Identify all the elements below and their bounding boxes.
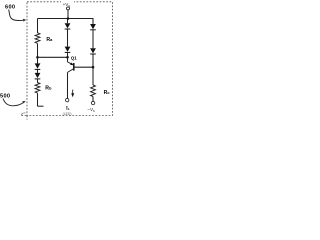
junction dot left node — [36, 56, 39, 59]
wire base node to Rc — [92, 67, 94, 85]
svg-text:500: 500 — [0, 93, 10, 99]
collector lead — [68, 69, 74, 73]
base wire to right column — [74, 66, 93, 68]
stub wire at bottom of left column — [38, 105, 44, 107]
junction dot at +V rail — [67, 17, 70, 20]
stray corner mark bottom-left of dashed box — [22, 113, 26, 115]
middle column: diode D1 — [67, 19, 69, 24]
diode D4 — [35, 73, 41, 78]
wire D4 to Rb — [37, 79, 39, 83]
output terminal circle — [66, 98, 69, 101]
diode D6 — [90, 48, 96, 53]
diode D5 — [90, 24, 96, 29]
wire D6 to base node — [92, 54, 94, 67]
top rail wire — [38, 18, 94, 20]
collector wire down — [67, 72, 69, 98]
emitter lead with arrow — [67, 57, 69, 62]
wire D5 to D6 — [92, 30, 94, 48]
white patch behind +V label breaking top dash — [61, 0, 74, 7]
current direction arrow — [72, 90, 74, 94]
wire terminal to rail — [67, 10, 69, 19]
resistor Rc — [91, 85, 96, 97]
dashed overshoot below bottom-left corner — [26, 116, 28, 120]
dashed overshoot left of bottom-left corner — [21, 115, 27, 117]
svg-text:600: 600 — [5, 4, 15, 10]
wire Rb down — [37, 93, 39, 106]
wire Rc to -Vs terminal — [92, 97, 94, 102]
junction dot emitter node — [66, 56, 69, 59]
resistor Rb — [35, 83, 40, 94]
wire D2 to emitter node — [67, 52, 69, 57]
wire D3 to D4 — [37, 69, 39, 73]
svg-text:(LED): (LED) — [63, 112, 72, 116]
diode D3 — [37, 57, 39, 63]
leader arrow for 500 — [3, 99, 24, 106]
junction dot base node — [92, 66, 95, 69]
+Vs terminal circle — [67, 7, 70, 10]
wire D1 to D2 — [67, 29, 69, 47]
base bar — [73, 63, 75, 71]
right column: rail corner down — [92, 18, 94, 24]
wire left node to emitter node — [38, 56, 68, 58]
-Vs terminal circle — [91, 101, 94, 104]
wire Ra to node — [37, 44, 39, 58]
dashed box (driver block boundary) — [27, 2, 113, 116]
leader arrow for 600 — [9, 10, 24, 21]
svg-text:Q1: Q1 — [71, 55, 77, 60]
left column wire rail to Ra — [37, 19, 39, 34]
diode D2 — [65, 47, 71, 52]
resistor Ra — [35, 33, 40, 44]
